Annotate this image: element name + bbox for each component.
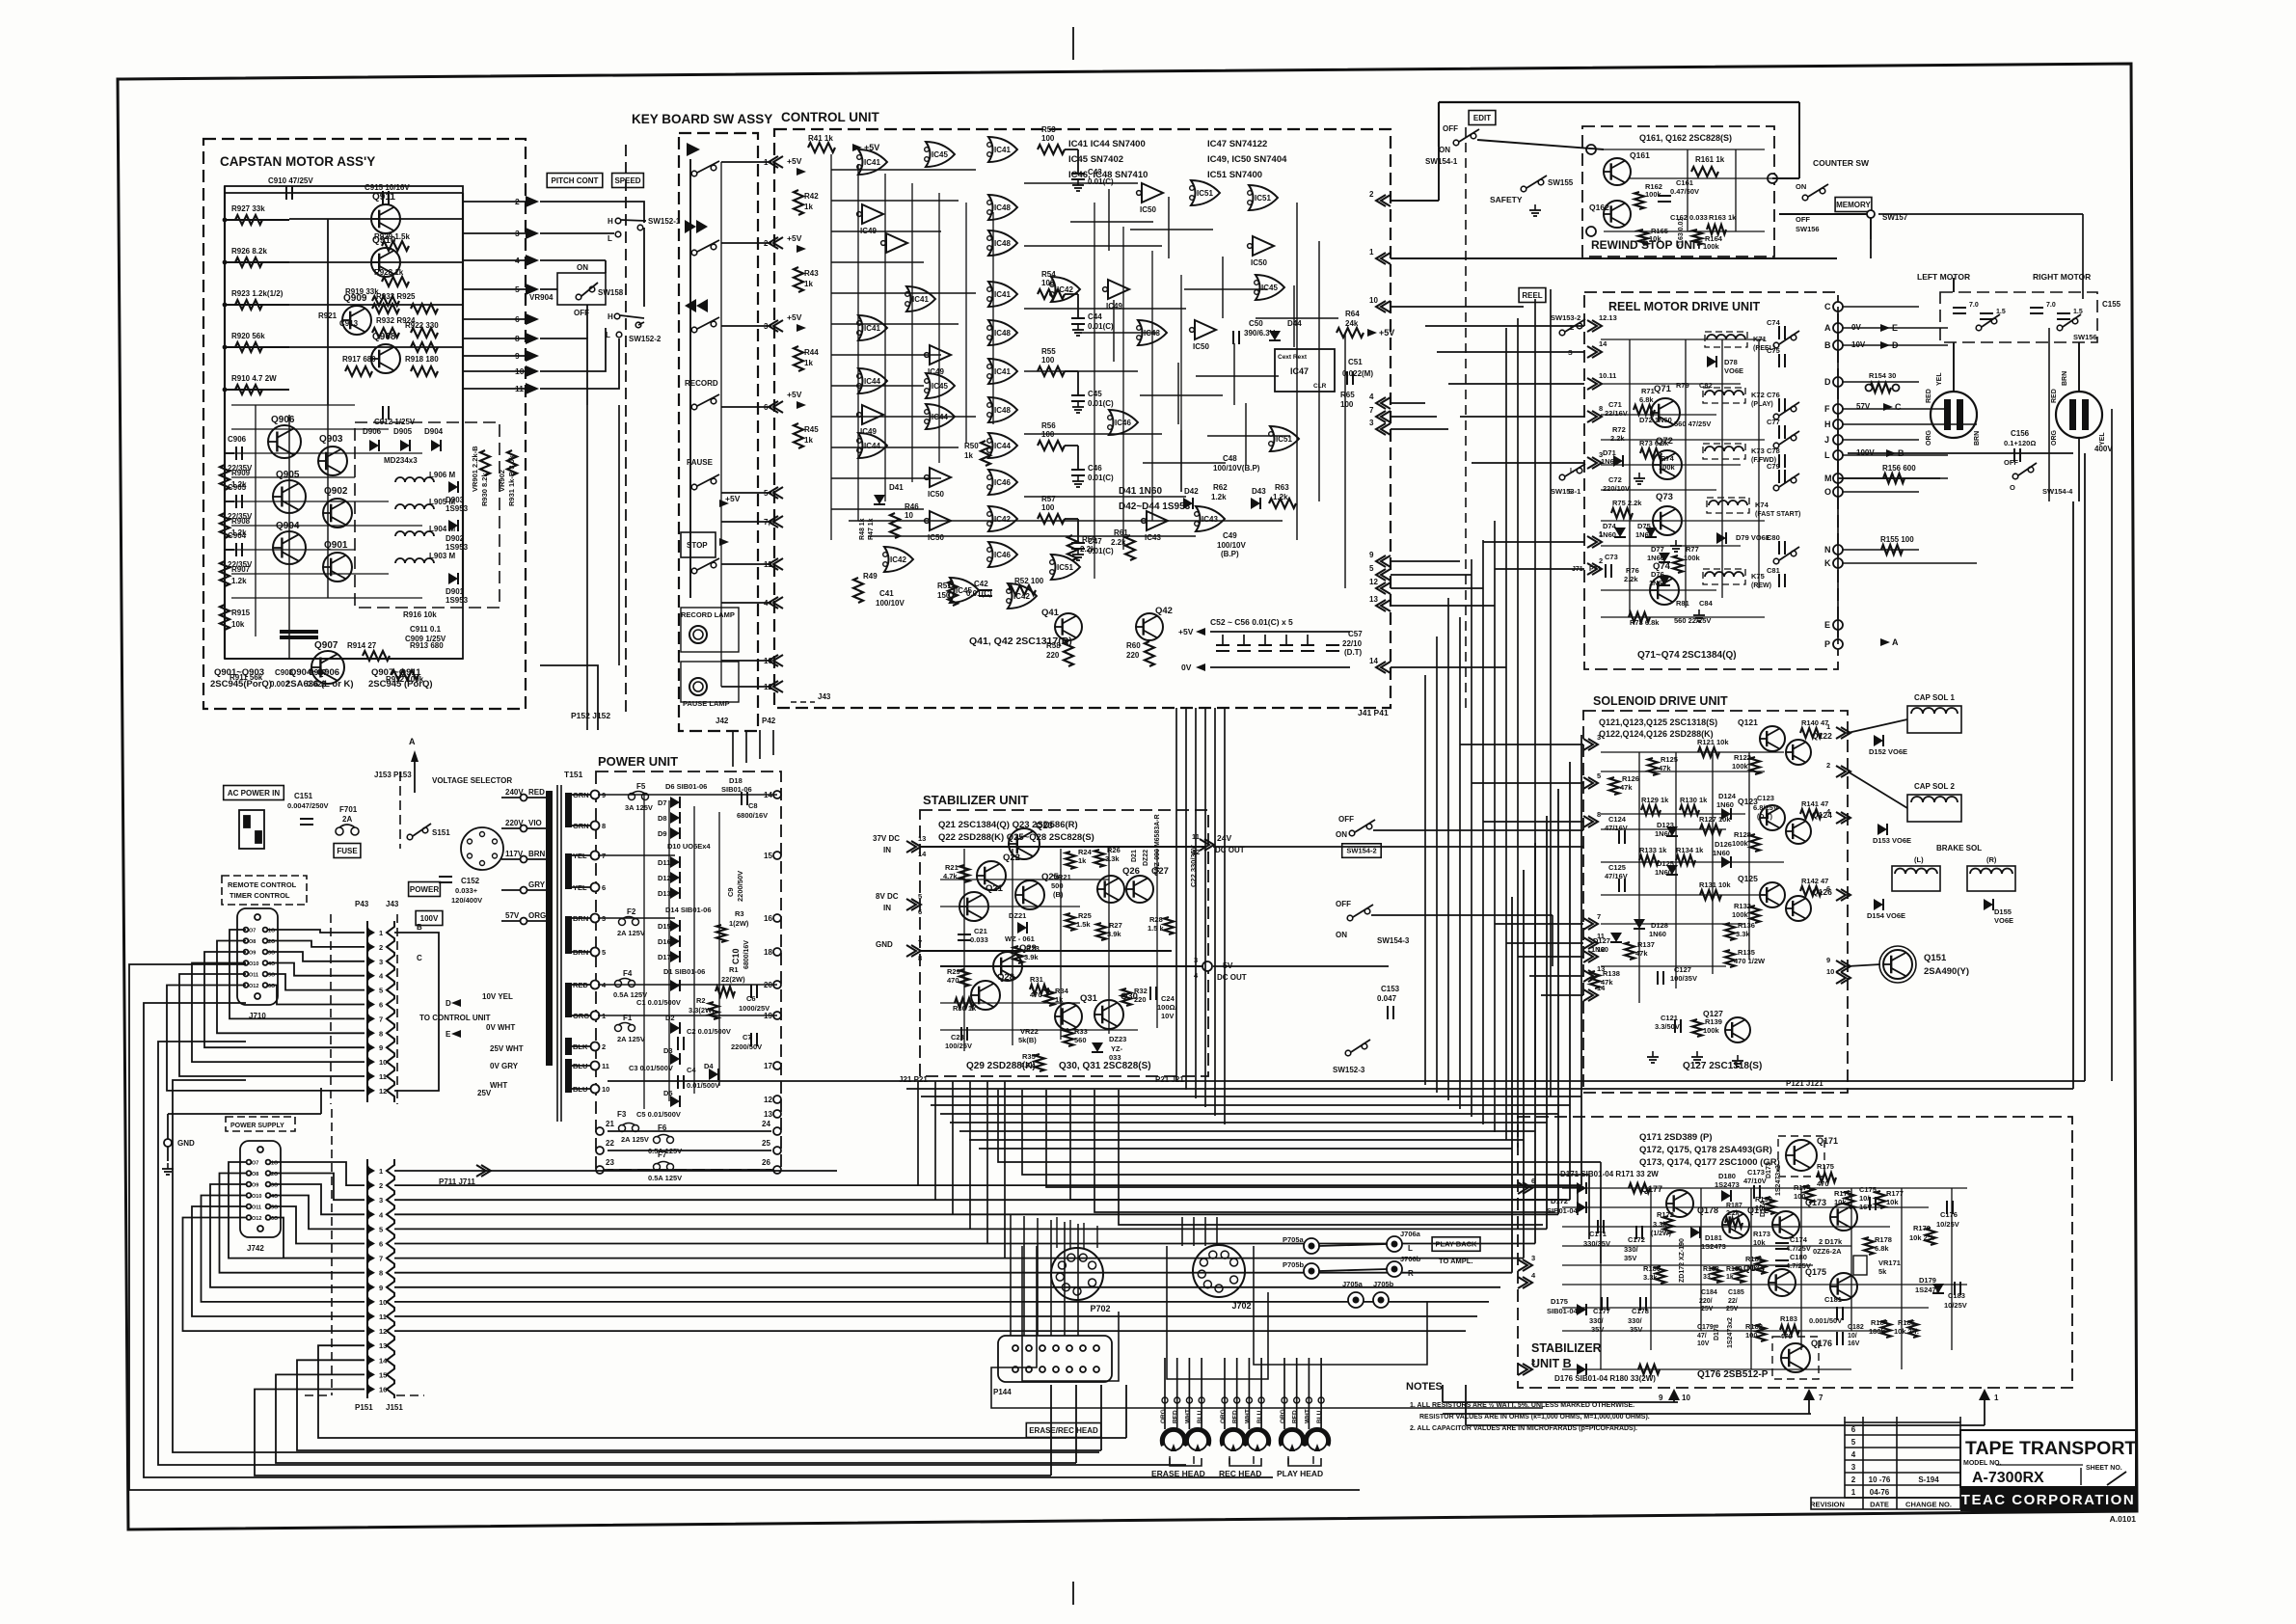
svg-text:ZD172 XZ-190: ZD172 XZ-190 [1679, 1238, 1686, 1283]
sw154-2 label [1342, 844, 1382, 858]
diode D43 [1251, 498, 1260, 509]
svg-text:37V DC: 37V DC [873, 834, 900, 843]
fuse F2 [619, 917, 639, 926]
svg-text:12: 12 [1369, 578, 1378, 586]
switch SW155 [1521, 176, 1547, 192]
wire counter down [1870, 218, 1872, 239]
wire head bracket rec head L [1229, 1456, 1230, 1464]
svg-text:470: 470 [947, 976, 959, 985]
switch SW154-3 [1347, 905, 1373, 921]
transistor Q123 [1760, 805, 1785, 830]
control pin 4 [769, 597, 783, 609]
svg-text:R907: R907 [231, 565, 251, 574]
resistor R140 [1800, 728, 1822, 738]
svg-text:12: 12 [1597, 945, 1605, 954]
wire stab internal 0 [940, 846, 1138, 848]
svg-text:R140 47: R140 47 [1801, 718, 1828, 727]
arrow C reel [1883, 403, 1893, 411]
svg-text:O8: O8 [249, 939, 256, 945]
resistor R35 [1035, 1054, 1044, 1071]
wire stab drop 0 [917, 1081, 919, 1185]
svg-text:Q73: Q73 [1656, 492, 1673, 502]
svg-text:21: 21 [606, 1120, 614, 1128]
inverter IC49 [857, 405, 883, 424]
terminal r154a [1866, 385, 1873, 392]
svg-text:5: 5 [1851, 1438, 1856, 1447]
svg-text:12: 12 [764, 1096, 772, 1104]
capacitor C21 [958, 934, 971, 940]
wire sw right 2 [1371, 914, 1553, 916]
wire R926 [225, 261, 289, 263]
svg-text:Cext Rext: Cext Rext [1278, 354, 1308, 361]
capacitor C52 [1216, 645, 1229, 651]
capacitor C53 [1237, 645, 1251, 651]
capstan pin arrow 8 [526, 333, 539, 344]
svg-text:D9: D9 [658, 829, 667, 838]
svg-text:C185: C185 [1728, 1289, 1744, 1296]
wire bus v 6 [1534, 843, 1536, 1244]
resistor R184 [1881, 1320, 1891, 1338]
gnd terminal [164, 1139, 172, 1147]
reel label [1519, 288, 1546, 303]
svg-text:R142 47: R142 47 [1801, 877, 1828, 885]
wire trunk v 3 [1459, 617, 1461, 1109]
relay frame K71 [1705, 332, 1747, 347]
capacitor C55 [1280, 645, 1293, 651]
resistor R61 [1125, 535, 1135, 560]
svg-text:CAP SOL 2: CAP SOL 2 [1914, 782, 1955, 791]
diode D128 [1634, 919, 1645, 929]
terminal r154b [1893, 385, 1900, 392]
junction [223, 303, 228, 308]
svg-text:Q161: Q161 [1630, 150, 1650, 160]
svg-text:DC OUT: DC OUT [1217, 973, 1247, 982]
svg-text:R187: R187 [1726, 1203, 1742, 1209]
gate IC48 [987, 320, 1017, 345]
diode D13 [670, 887, 680, 899]
gate IC42 bottom [883, 547, 913, 572]
stop button box [681, 532, 716, 557]
wire caps bus top [1210, 631, 1350, 633]
stab b pin 3 [1518, 1259, 1532, 1271]
wire trunk v 7 [1505, 328, 1507, 1140]
wire J43 bracket [394, 933, 439, 1091]
wire trunk v 9 [1534, 299, 1536, 1089]
inductor L906M [395, 477, 434, 482]
svg-text:O9: O9 [252, 1183, 258, 1189]
svg-text:6: 6 [1851, 1425, 1856, 1434]
svg-text:0.033: 0.033 [970, 935, 988, 944]
svg-text:1S2473x2: 1S2473x2 [1727, 1317, 1734, 1348]
wire kb-cu 541 [721, 521, 771, 523]
transistor Q122 [1786, 740, 1811, 765]
wire cu stub 2 [1391, 428, 1448, 430]
wire stab 24v out [1213, 846, 1583, 848]
svg-text:Q71~Q74 2SC1384(Q): Q71~Q74 2SC1384(Q) [1637, 650, 1737, 661]
svg-text:10k 2°/.: 10k 2°/. [1909, 1233, 1934, 1242]
connector P43 strip arrow [366, 928, 375, 937]
wire sol vert 1 [1675, 752, 1677, 988]
wire j742 right 0 [270, 1162, 365, 1185]
resistor R2 [709, 1002, 718, 1019]
ground sol 3 [1732, 1055, 1743, 1067]
wire pin8 run [540, 338, 587, 405]
power pin term 26 [773, 1166, 781, 1174]
svg-text:RED: RED [1232, 1410, 1239, 1423]
transistor Q72 [1653, 450, 1682, 479]
svg-text:R125: R125 [1661, 755, 1678, 764]
relay contact [1773, 547, 1799, 564]
svg-text:BLU: BLU [1256, 1410, 1263, 1423]
resistor R189 [1735, 1267, 1744, 1283]
wire primary bar VIO [527, 827, 546, 829]
wire secondary GRN9 [572, 794, 591, 796]
svg-text:POWER UNIT: POWER UNIT [598, 754, 678, 769]
svg-text:IC45 SN7402: IC45 SN7402 [1068, 154, 1123, 165]
svg-text:100: 100 [1041, 503, 1055, 512]
wire head 2 [1188, 1358, 1190, 1429]
wire capstan pin 2 [463, 201, 527, 203]
transistor Q125 [1760, 882, 1785, 907]
svg-text:10: 10 [602, 1085, 609, 1094]
svg-text:C24: C24 [1161, 994, 1175, 1003]
resistor R165 [1638, 230, 1648, 245]
wire power h1 [598, 794, 777, 796]
control pin 6 [769, 401, 783, 413]
transistor Q42 [1136, 613, 1163, 640]
wire bus wrap 14 [297, 1360, 1101, 1450]
svg-text:RED: RED [1173, 1410, 1179, 1423]
capacitor C906 [236, 447, 242, 460]
wire motor R down [2078, 342, 2080, 392]
svg-text:7: 7 [918, 938, 922, 947]
svg-text:1k: 1k [804, 203, 813, 211]
diode D7 [670, 797, 680, 808]
svg-text:DATE: DATE [1870, 1501, 1889, 1509]
svg-text:5k(B): 5k(B) [1018, 1036, 1037, 1044]
wire stab gnd [920, 950, 1172, 952]
svg-text:Q29 2SD288(K): Q29 2SD288(K) [966, 1061, 1036, 1071]
inverter IC43 [1142, 511, 1168, 530]
svg-text:C8: C8 [748, 801, 758, 810]
solenoid pin 8 [1583, 816, 1598, 827]
edit dashed vertical [1465, 127, 1467, 714]
resistor R135 [1725, 950, 1735, 967]
svg-text:O11: O11 [252, 1205, 261, 1211]
resistor R30 [955, 998, 974, 1008]
edit label [1469, 111, 1496, 125]
control right pin 1 [1376, 253, 1391, 264]
svg-text:1.2k: 1.2k [231, 480, 247, 489]
wire reel-motor 510 [1843, 491, 1919, 493]
stabilizer unit b box [1518, 1117, 2072, 1388]
stab b bottom arrow 9 10 [1668, 1389, 1680, 1400]
svg-text:O8: O8 [252, 1172, 258, 1177]
svg-text:SW156: SW156 [2073, 333, 2097, 341]
resistor R182 [1756, 1324, 1766, 1341]
stab pin 13 [906, 841, 921, 853]
svg-text:8: 8 [379, 1029, 383, 1038]
resistor R1 [716, 987, 735, 996]
capacitor C75 [1779, 354, 1785, 367]
cap sol 2 coil [1911, 797, 1958, 802]
connector P43 strip [367, 921, 370, 1102]
wire kb-cu 168 [721, 161, 771, 163]
svg-text:47k: 47k [1635, 949, 1648, 958]
resistor R57 [1038, 514, 1065, 524]
svg-text:R128: R128 [1734, 830, 1751, 839]
svg-text:D8: D8 [658, 814, 667, 823]
capacitor C81 [1779, 574, 1785, 587]
resistor R178 [1864, 1237, 1874, 1255]
svg-text:VIO: VIO [528, 819, 542, 827]
transistor Q121 [1760, 726, 1785, 751]
svg-text:R918 180: R918 180 [405, 355, 439, 364]
svg-text:R29: R29 [947, 967, 960, 976]
wire sol stub 7 [1541, 994, 1583, 996]
svg-text:P144: P144 [993, 1388, 1012, 1396]
svg-text:L: L [1824, 450, 1830, 460]
connector P144 [998, 1336, 1112, 1382]
svg-text:25V: 25V [477, 1089, 492, 1097]
brake sol L box [1892, 866, 1940, 891]
secondary terminal 11 [591, 1062, 600, 1070]
relay frame K75 [1703, 569, 1745, 584]
switch SW154-4 [2012, 463, 2037, 479]
svg-text:C911 0.1: C911 0.1 [410, 625, 442, 634]
svg-text:100/25V: 100/25V [945, 1042, 972, 1050]
wire cu internal r 1 [1024, 245, 1162, 247]
J151 dashed vert [396, 1394, 424, 1396]
transistor Q71 [1651, 398, 1680, 427]
voltage selector pin [468, 839, 473, 844]
wire cu bottom v 1 [1185, 708, 1187, 1090]
svg-text:IC46: IC46 [994, 478, 1011, 487]
svg-text:R64: R64 [1345, 310, 1360, 318]
svg-text:R922 330: R922 330 [405, 321, 439, 330]
resistor R161 [1691, 167, 1718, 176]
power pin term 14 [773, 791, 781, 798]
wire q151 [1848, 964, 1880, 966]
diode D12 [670, 872, 680, 883]
resistor R28 [1164, 917, 1174, 934]
wire kb-cu 625 [721, 602, 771, 604]
wire j702 drop 3 [1216, 1217, 1218, 1246]
resistor R162 [1634, 192, 1644, 209]
svg-text:C81: C81 [1767, 566, 1780, 575]
svg-text:2SA636 (L or K): 2SA636 (L or K) [285, 679, 354, 690]
diode D8 [670, 812, 680, 824]
terminal J705a inner [1353, 1297, 1360, 1304]
terminal P705a inner [1309, 1243, 1315, 1250]
pitch cont label [547, 174, 603, 188]
svg-text:Q906: Q906 [271, 415, 295, 425]
wire cu vert 3 [911, 183, 913, 482]
capacitor motor L2 [1980, 313, 1993, 319]
svg-text:D6 SIB01-06: D6 SIB01-06 [665, 782, 707, 791]
wire bus h 12 [394, 1330, 1466, 1332]
svg-text:R134 1k: R134 1k [1676, 846, 1704, 854]
svg-text:+5V: +5V [787, 156, 802, 166]
switch play [691, 161, 719, 176]
capacitor C172 [1636, 1226, 1642, 1239]
svg-text:11: 11 [1597, 932, 1605, 940]
wire stab internal 6 [940, 1029, 1138, 1031]
connector P151 strip [367, 1159, 370, 1398]
solenoid right pin 6 [1836, 889, 1850, 901]
svg-text:D78: D78 [1724, 358, 1738, 366]
svg-text:OFF: OFF [1796, 215, 1810, 224]
gate IC46 [987, 470, 1017, 495]
svg-text:2SC945(PorQ): 2SC945(PorQ) [210, 679, 272, 690]
svg-text:C21: C21 [974, 927, 987, 935]
svg-text:J742: J742 [247, 1244, 264, 1253]
svg-text:R33: R33 [1074, 1027, 1088, 1036]
terminal K [1833, 558, 1843, 568]
resistor R127 [1700, 825, 1721, 834]
power pin term 16 [773, 914, 781, 922]
svg-text:C156: C156 [2011, 429, 2030, 438]
resistor R156 [1883, 474, 1904, 483]
switch counter [1802, 184, 1828, 201]
connector J742 [240, 1141, 281, 1237]
svg-text:220: 220 [1134, 995, 1147, 1004]
connector P43 strip arrow [366, 1014, 375, 1023]
wire nest 0 [998, 1090, 1601, 1162]
wire cu internal 9 [831, 447, 959, 448]
switch motor L [1976, 314, 2000, 331]
power pin term 18 [773, 948, 781, 956]
capacitor motor R2 [2057, 313, 2070, 319]
wire sw158 down [586, 305, 588, 338]
head wire junction [1282, 1397, 1287, 1403]
connector P43 strip arrow [366, 957, 375, 966]
relay frame K73 [1703, 444, 1745, 459]
svg-text:TIMER CONTROL: TIMER CONTROL [230, 891, 290, 900]
svg-text:REC HEAD: REC HEAD [1219, 1469, 1261, 1478]
wire sol stub 0 [1460, 744, 1583, 745]
relay frame K72 [1703, 388, 1745, 403]
wire sol vert 0 [1638, 752, 1640, 1003]
wire midbus 8 [979, 1148, 1512, 1150]
svg-text:SHEET NO.: SHEET NO. [2086, 1465, 2122, 1472]
svg-text:S: S [1568, 489, 1573, 496]
svg-text:A.0101: A.0101 [2110, 1514, 2137, 1524]
wire j742 left 2 [210, 1184, 365, 1287]
voltage selector pin [493, 853, 498, 858]
transformer T151 secondary bar [565, 1038, 572, 1055]
svg-text:SW152-3: SW152-3 [1333, 1066, 1365, 1074]
resistor R922 [411, 342, 438, 352]
wire capstan left bus [224, 186, 226, 659]
wire sol stub 2 [1483, 821, 1583, 823]
svg-text:D74: D74 [1603, 522, 1617, 530]
wire capstan pin 10 [463, 370, 527, 372]
svg-text:O: O [1824, 487, 1831, 497]
connector P43 strip arrow [366, 1042, 375, 1052]
svg-text:D179: D179 [1919, 1276, 1936, 1285]
wire sol internal 4 [1601, 861, 1784, 863]
fuse F4 [615, 979, 635, 988]
wire far left drop 0 [129, 964, 1360, 1490]
wire stabb bottom 3 [1466, 1424, 1985, 1426]
stab b bottom arrow 1 [1979, 1389, 1990, 1400]
resistor R155 [1881, 545, 1903, 555]
wire power bottom 2 [608, 1169, 771, 1171]
capstan pin arrow 4 [526, 255, 539, 266]
svg-text:(B.P): (B.P) [1221, 550, 1239, 558]
ground left [162, 1163, 174, 1175]
svg-text:BRN: BRN [2062, 371, 2068, 386]
svg-text:22/10: 22/10 [1342, 639, 1363, 648]
svg-text:35V: 35V [1630, 1325, 1642, 1334]
svg-text:IC45: IC45 [932, 382, 948, 391]
wire capstan pin 3 [463, 232, 527, 234]
svg-text:18: 18 [764, 948, 772, 957]
power pin term 22 [596, 1147, 604, 1154]
svg-text:J21 P21: J21 P21 [899, 1075, 928, 1084]
wire kb-cu 511 [721, 492, 771, 494]
wire cu internal 10 [831, 477, 941, 479]
svg-text:D124: D124 [1718, 792, 1737, 800]
resistor R142 [1800, 886, 1822, 896]
svg-text:15: 15 [379, 1370, 387, 1379]
wire primary bar BRN [527, 858, 546, 860]
wire sol stub 4 [1506, 942, 1583, 944]
play button icon [687, 143, 700, 156]
sheet slash [2107, 1472, 2126, 1485]
svg-text:IC50: IC50 [1193, 342, 1209, 351]
voltage selector pin [480, 832, 485, 837]
svg-text:SW152-2: SW152-2 [629, 335, 662, 343]
svg-text:R53: R53 [1041, 125, 1056, 134]
svg-text:E: E [446, 1030, 451, 1039]
wire cap C54 [1264, 635, 1266, 644]
diode D1 [670, 980, 680, 991]
capacitor C43 [1071, 174, 1085, 179]
arrow D reel [1880, 341, 1890, 349]
connector P151 strip arrow [366, 1369, 375, 1379]
svg-text:ORG: ORG [1220, 1409, 1227, 1423]
resistor R927 [235, 215, 262, 225]
svg-text:Q127 2SC1318(S): Q127 2SC1318(S) [1683, 1061, 1762, 1071]
svg-text:R72: R72 [1612, 425, 1626, 434]
svg-text:C5 0.01/500V: C5 0.01/500V [636, 1110, 681, 1119]
resistor R25 [1066, 913, 1075, 931]
capacitor C54 [1258, 645, 1272, 651]
svg-text:0.047: 0.047 [1377, 994, 1397, 1003]
gate IC41 [987, 282, 1017, 307]
switch SW158 [576, 283, 598, 300]
svg-text:R1: R1 [729, 965, 739, 974]
terminal P705b inner [1309, 1268, 1315, 1275]
svg-text:(R): (R) [1986, 855, 1997, 864]
ground q73 [1670, 540, 1682, 552]
stab b pin 6 [1518, 1182, 1532, 1194]
svg-text:Q121: Q121 [1738, 717, 1758, 727]
svg-text:C155: C155 [2102, 300, 2121, 309]
switch SW154-2 [1349, 820, 1375, 836]
solenoid drive unit box [1583, 711, 1848, 1093]
resistor R914 [363, 651, 390, 661]
svg-text:0.01(C): 0.01(C) [1088, 322, 1114, 331]
svg-text:D152 VO6E: D152 VO6E [1869, 747, 1907, 756]
wire sol internal 7 [1601, 965, 1726, 967]
resistor R919 [372, 296, 399, 306]
svg-text:STABILIZER: STABILIZER [1531, 1341, 1602, 1355]
svg-text:R923 1.2k(1/2): R923 1.2k(1/2) [231, 289, 284, 298]
wire power h5 [598, 1015, 777, 1016]
